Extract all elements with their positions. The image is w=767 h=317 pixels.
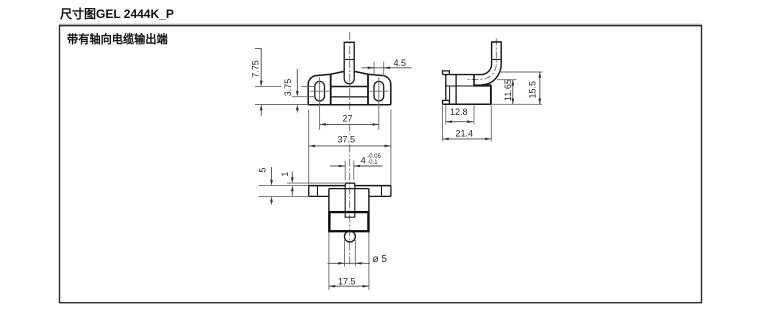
dimension bottom extension line (body bottom extended left) xyxy=(255,104,308,106)
dimension 21.4 extension lines xyxy=(443,105,492,141)
plate top extension to left xyxy=(259,185,309,187)
inner flange line xyxy=(449,86,451,100)
plate top edge xyxy=(309,185,391,187)
side view body top edge xyxy=(443,74,482,76)
plate inner line left xyxy=(317,186,319,197)
title underline rule xyxy=(59,23,702,25)
svg-text:4: 4 xyxy=(361,156,366,166)
central section right edge xyxy=(367,74,369,105)
svg-text:21.4: 21.4 xyxy=(456,129,474,139)
thick sensing block xyxy=(329,212,368,231)
dimension o5 line xyxy=(328,262,371,264)
dimension 11.65 top extension xyxy=(497,79,517,81)
o5 extension lines xyxy=(345,240,356,267)
svg-text:27: 27 xyxy=(343,114,353,124)
side view top spigot tab xyxy=(443,71,450,75)
left slot (obround) xyxy=(315,81,325,101)
flange right face xyxy=(455,75,457,105)
svg-text:11.65: 11.65 xyxy=(503,79,513,101)
plate left end xyxy=(308,186,310,197)
dimension 37.5 extension lines xyxy=(309,109,391,185)
dimension 11.65 xyxy=(512,80,514,105)
right slot (obround) xyxy=(374,81,384,101)
left slot vertical centerline / 27 extension xyxy=(319,77,321,130)
plate right end xyxy=(390,186,392,197)
svg-text:-0.1: -0.1 xyxy=(367,160,378,166)
right slot vertical centerline / 27 extension xyxy=(378,77,380,130)
shaft side lines (bottom view) xyxy=(345,186,355,218)
dimension 4.5 extension lines xyxy=(374,62,384,77)
front view vertical centerline xyxy=(349,32,351,266)
flange area line xyxy=(446,85,474,87)
side view bottom edge xyxy=(443,103,492,105)
body left side + 17.5 extension xyxy=(328,189,330,232)
dimension 15.5 top extension xyxy=(500,71,542,73)
svg-text:3.75: 3.75 xyxy=(283,79,293,97)
bottom extension line to the right xyxy=(491,103,543,105)
svg-text:4.5: 4.5 xyxy=(394,58,407,68)
body right side + 17.5 extension xyxy=(368,189,370,232)
svg-text:37.5: 37.5 xyxy=(338,135,356,145)
plate inner line right xyxy=(381,186,383,197)
shaft end tick xyxy=(345,216,356,218)
svg-text:7.75: 7.75 xyxy=(250,60,260,78)
svg-text:12.8: 12.8 xyxy=(450,107,468,117)
dimension 7.75 xyxy=(255,48,262,50)
body outline (front view) xyxy=(308,71,391,104)
svg-text:-0.05: -0.05 xyxy=(367,154,381,160)
right slot horizontal centerline xyxy=(369,90,388,92)
dimension 3.75 extension line xyxy=(292,96,315,98)
dimension 12.8 extension lines xyxy=(446,105,474,124)
central section left edge xyxy=(330,74,332,105)
cable step line xyxy=(492,59,502,61)
shaft (front view) xyxy=(344,42,354,84)
spigot tab (bottom view) xyxy=(345,183,354,186)
dimension 7.75 extension line upper xyxy=(255,86,315,88)
dimension 5 xyxy=(271,167,273,204)
body rear top edge xyxy=(329,188,369,190)
plate bottom extension to left xyxy=(259,195,309,197)
left slot horizontal centerline xyxy=(310,90,329,92)
svg-text:尺寸图GEL 2444K_P: 尺寸图GEL 2444K_P xyxy=(60,6,174,21)
central section upper horizontal line xyxy=(331,86,368,88)
block top edge (thick) xyxy=(474,84,492,86)
shaft tip circle o5 xyxy=(344,231,355,242)
dimension 3.75 xyxy=(296,69,298,113)
svg-text:15.5: 15.5 xyxy=(528,81,538,99)
flange left face xyxy=(445,75,447,101)
dimension 21.4 line xyxy=(443,138,492,140)
bottom spigot tab xyxy=(443,100,450,104)
svg-text:带有轴向电缆输出端: 带有轴向电缆输出端 xyxy=(67,32,168,46)
dimension 15.5 xyxy=(539,72,541,104)
dimension 27 line xyxy=(320,123,379,125)
shaft step line xyxy=(344,58,354,60)
svg-text:1: 1 xyxy=(280,172,290,177)
spigot top extension line (left) xyxy=(287,182,344,184)
svg-text:17.5: 17.5 xyxy=(338,276,356,286)
frame box xyxy=(60,26,702,303)
block right face xyxy=(490,86,492,105)
central section lower horizontal line xyxy=(331,96,368,98)
body right face upper xyxy=(473,75,475,86)
plate bottom edge xyxy=(309,195,391,197)
svg-text:5: 5 xyxy=(257,168,267,173)
cable vertical centerline xyxy=(466,39,496,80)
dimension 17.5 line xyxy=(329,285,369,287)
dimension 37.5 line xyxy=(309,145,391,147)
dimension 4 line xyxy=(330,165,382,167)
dimension 4 extension lines xyxy=(345,161,354,181)
dimension 4.5 line xyxy=(362,67,412,69)
dimension 12.8 line xyxy=(446,121,474,123)
svg-text:ø 5: ø 5 xyxy=(373,254,388,265)
side view cable (bent) outline xyxy=(481,42,501,85)
dimension 1 xyxy=(291,172,293,196)
